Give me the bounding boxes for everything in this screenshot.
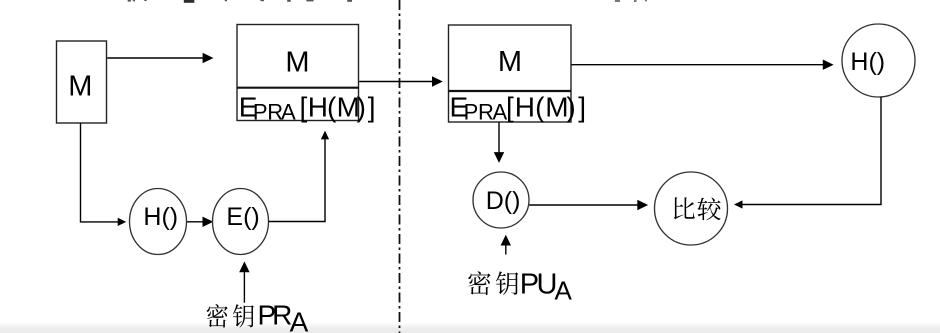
svg-text:H(): H(): [850, 48, 885, 76]
svg-text:E(): E(): [226, 203, 259, 231]
svg-text:A: A: [290, 307, 309, 333]
bottom gray bar: [0, 323, 940, 333]
label key 密钥PR_A: [207, 300, 309, 333]
arrow: H() to E(): [187, 218, 212, 226]
arrow: received M to hash function H(): [572, 61, 833, 69]
label 比较 (compare): [674, 197, 721, 220]
arrow: key PR_A up into E(): [240, 263, 248, 303]
svg-text:M: M: [68, 70, 92, 102]
svg-text:M: M: [498, 46, 522, 78]
label E_PRA[H(M)] (receiver): [450, 92, 586, 125]
circle comparator: [655, 172, 728, 245]
svg-text:[H(M)]: [H(M)]: [300, 92, 376, 123]
arrow: key PU_A up into D(): [502, 236, 510, 254]
circle H() hash at sender: [130, 189, 187, 255]
clipped heading text fragments (top right): [615, 0, 647, 2]
svg-text:PRA: PRA: [464, 100, 508, 125]
svg-text:PR: PR: [258, 300, 293, 331]
circle H() hash at receiver: [842, 24, 915, 97]
divider line of signed message block (sender): [237, 87, 359, 89]
svg-text:M: M: [285, 47, 309, 79]
label E_PRA[H(M)] (sender): [239, 92, 376, 125]
wire: H() output down and left to comparator: [734, 97, 881, 208]
svg-text:D(): D(): [486, 187, 521, 215]
circle E() encrypt at sender: [213, 189, 269, 255]
svg-text:PU: PU: [520, 269, 558, 301]
box received message block (receiver): [449, 25, 572, 122]
wire: message M down and right to H() hash at sender: [81, 123, 127, 226]
arrow: D() output to comparator: [529, 201, 646, 209]
arrow: received signature down to D(): [495, 123, 503, 162]
label key 密钥PU_A: [468, 269, 572, 306]
divider line of received message block (receiver): [449, 90, 572, 92]
svg-text:A: A: [555, 275, 573, 305]
arrow: signed message across boundary to receiver: [359, 77, 441, 85]
svg-text:H(): H(): [143, 203, 178, 231]
svg-text:[H(M)]: [H(M)]: [506, 92, 586, 123]
clipped heading text fragments (top left): [128, 0, 352, 3]
arrow: message M to signed-message block: [107, 54, 212, 62]
box M (message at sender): [57, 41, 107, 123]
svg-text:PRA: PRA: [253, 100, 296, 125]
wire: E() output right and up into signature block: [269, 131, 329, 222]
separator dash-dot line (sender/receiver boundary): [399, 0, 401, 333]
circle D() decrypt: [473, 172, 529, 228]
box signed message block (sender): [237, 25, 359, 121]
